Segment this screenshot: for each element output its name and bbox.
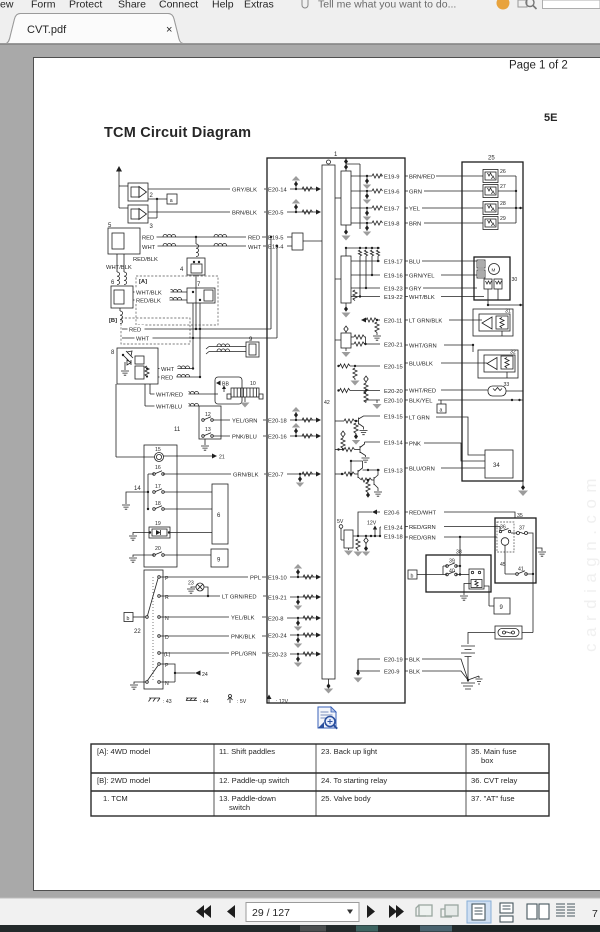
svg-text:24: 24 [202,672,208,678]
wire RED (2WD) [122,237,271,333]
svg-text:27: 27 [500,184,506,190]
node a [148,194,177,218]
wire RED/GRN (E19-24) [405,525,500,531]
switch 40 [443,566,457,576]
paddle switch box 11 [174,406,221,450]
wire GRY/BLK to E20-14 [148,185,266,194]
selector switch 22 [134,570,171,689]
svg-text:12. Paddle-up switch: 12. Paddle-up switch [219,776,290,785]
wire BRN [405,222,483,228]
svg-text:E19-17: E19-17 [384,260,403,266]
wire BLU/BLK [405,362,487,368]
svg-text:E20-15: E20-15 [384,365,403,371]
junction box 38 [426,550,491,593]
wire RED from 8 [158,373,201,381]
svg-text:BRN/RED: BRN/RED [409,175,435,181]
svg-text:E19-16: E19-16 [384,274,403,280]
speed sensor 2 [128,183,154,201]
svg-text:BRN/BLK: BRN/BLK [232,210,257,216]
pin E19-10 network [268,564,321,582]
svg-text:Page 1 of 2: Page 1 of 2 [509,60,568,72]
pressure switch amp 31 [473,309,513,337]
svg-text:RED/GRN: RED/GRN [409,525,436,531]
svg-text:E19-24: E19-24 [384,526,403,532]
svg-text:BLK: BLK [409,658,420,664]
wire PNK [405,442,485,461]
illumination bulb 15 [116,384,225,462]
svg-text:BLU/BLK: BLU/BLK [409,362,433,368]
pin E20-16 network [268,423,321,441]
svg-text:11. Shift paddles: 11. Shift paddles [219,747,275,756]
12V feed and junction row E19-18 [353,521,403,541]
fusible link capsule [468,626,533,644]
pin E20-5 network [268,199,321,217]
svg-text:BLU/ORN: BLU/ORN [409,467,435,473]
pin E20-18 network [268,407,321,425]
pin E20-24 network [268,633,321,649]
E19-24 wire [380,526,403,536]
wire WHT/BLK [405,295,484,301]
svg-text:24. To starting relay: 24. To starting relay [321,776,387,785]
svg-text:23: 23 [188,581,194,587]
svg-text:19: 19 [155,521,161,527]
svg-text:WHT/RED: WHT/RED [156,392,183,398]
sensor input block (second) [335,247,380,303]
node b (right) [408,570,460,579]
svg-text:E20-14: E20-14 [268,188,287,194]
svg-text:Help: Help [212,0,234,11]
svg-text:20: 20 [155,546,161,552]
wire BLK E20-19 [405,658,468,680]
wire GRN [405,190,483,196]
svg-text:[B]: 2WD model: [B]: 2WD model [97,776,150,785]
selector lower ground [130,682,146,689]
RED/GRN feed into 38 [459,537,469,576]
svg-text:E19-10: E19-10 [268,576,287,582]
ground under strip 42 [324,679,333,694]
svg-text:28: 28 [500,201,506,207]
wire E19-17 internal [351,260,403,266]
svg-text:E20-10: E20-10 [384,399,403,405]
svg-text:GRN: GRN [409,190,422,196]
svg-text:PPL/GRN: PPL/GRN [231,651,256,657]
wire PNK/BLU to E20-16 [213,432,266,440]
svg-text:WHT/BLK: WHT/BLK [106,265,132,271]
svg-text:cardiagn.com: cardiagn.com [581,472,600,652]
svg-text:37. "AT" fuse: 37. "AT" fuse [471,794,515,803]
svg-text:E20-11: E20-11 [384,319,402,325]
wires from sensor 5 down to 6 [117,254,127,285]
E19-13 output transistor pair [335,460,403,498]
svg-text:GRN/BLK: GRN/BLK [233,472,259,478]
svg-text:7: 7 [592,908,598,920]
bottom edge strip [0,925,600,932]
wire GRY [405,287,477,293]
svg-text:E20-18: E20-18 [268,419,287,425]
wire GRN/BLK to E20-7 [163,470,266,478]
svg-text:42: 42 [324,400,330,406]
pin E20-14 network [268,176,321,194]
svg-text:36. CVT relay: 36. CVT relay [471,776,517,785]
speed sensor 3 [128,205,154,230]
svg-text:WHT/BLK: WHT/BLK [136,290,162,296]
svg-text:WHT/BLK: WHT/BLK [409,295,435,301]
wire LT GRN/RED to E19-21 [161,592,267,600]
wire GRN/YEL [405,274,477,280]
pin E20-8 network [268,616,321,632]
svg-text:RED/WHT: RED/WHT [409,511,437,517]
svg-text:a: a [440,407,443,413]
svg-text:29: 29 [500,216,506,222]
wire BRN/RED [405,175,483,181]
svg-text:13: 13 [205,427,211,433]
wire E19-16 internal [351,274,403,280]
connector 4 [180,258,205,329]
svg-text:RED: RED [142,235,154,241]
svg-text:Connect: Connect [159,0,198,11]
switch 16 [147,465,165,509]
svg-text:26: 26 [500,169,506,175]
shield drain to connector 4 [196,237,199,257]
svg-text:E19-13: E19-13 [384,469,403,475]
svg-text:25. Valve body: 25. Valve body [321,794,371,803]
ground under sensor supply block [342,225,351,241]
pin E19-5 / E19-4 filter box [268,233,322,251]
wire YEL/GRN to E20-18 [213,416,266,424]
wire RED to E19-5 (twisted pair) [140,233,272,241]
svg-text:b: b [127,616,130,622]
svg-text:1. TCM: 1. TCM [103,794,128,803]
svg-text:YEL/BLK: YEL/BLK [231,615,255,621]
svg-text:PNK/BLU: PNK/BLU [232,434,257,440]
svg-text:WHT: WHT [161,367,175,373]
svg-text:CVT.pdf: CVT.pdf [27,24,67,36]
pressure switch amp 32 [478,350,518,379]
solenoid return bus [515,176,523,223]
wire BLU [405,260,477,266]
svg-text:Protect: Protect [69,0,102,11]
svg-text:14: 14 [134,486,141,492]
svg-text:BLU: BLU [409,260,420,266]
connector 7 [187,282,215,377]
svg-text:PNK: PNK [409,442,421,448]
svg-text:30: 30 [512,277,518,283]
wire RED/WHT [405,511,515,518]
svg-text:E20-19: E20-19 [384,658,403,664]
switch 20 [129,546,211,562]
ground wire 14 left [122,492,148,509]
battery junction comb 10 [227,381,263,408]
svg-text:RED: RED [161,375,173,381]
svg-text:E19-9: E19-9 [384,175,399,181]
E20-10 wire to ground [373,399,403,409]
wire PPL to E19-10 [161,573,267,581]
ground under regulator [342,348,351,357]
wire BLU/ORN [405,467,485,473]
svg-text:PPL: PPL [250,575,262,581]
svg-text:LT GRN/RED: LT GRN/RED [222,594,257,600]
svg-text:E19-22: E19-22 [384,295,403,301]
svg-text:[B]: [B] [109,318,117,324]
wire E19-7 internal [351,206,399,221]
svg-text:WHT: WHT [248,245,262,251]
svg-text:YEL/GRN: YEL/GRN [232,418,257,424]
solenoid 29 [483,216,516,230]
svg-text:BLK: BLK [409,670,420,676]
wire E19-9 internal [351,174,399,189]
svg-text:E20-9: E20-9 [384,670,399,676]
node b (selector common) [124,613,146,622]
svg-text:15: 15 [155,447,161,453]
svg-text:5E: 5E [544,112,557,124]
svg-text:12V: 12V [367,521,377,527]
svg-text:Share: Share [118,0,146,11]
svg-text:18: 18 [155,501,161,507]
svg-text:LT GRN: LT GRN [409,416,430,422]
svg-text:BRN: BRN [409,222,421,228]
svg-text:RED/BLK: RED/BLK [136,298,161,304]
switch 39 [443,559,461,568]
svg-text:37: 37 [519,526,525,532]
svg-text:E20-21: E20-21 [384,343,403,349]
svg-text:Extras: Extras [244,0,274,11]
wire WHT/RED to oil temp sensor [405,389,488,395]
svg-text:BLK/YEL: BLK/YEL [409,399,433,405]
svg-text:34: 34 [493,463,500,469]
svg-text:: 5V: : 5V [237,699,247,705]
ground (top left) [116,166,128,208]
svg-text:PNK/BLK: PNK/BLK [231,634,256,640]
wire WHT to E19-4 (twisted pair) [140,242,278,251]
wire RED/BLK 6-7 [133,296,187,304]
wire PPL/GRN to E20-23 [161,649,267,657]
svg-text:×: × [166,24,172,36]
wire WHT/BLU to 11 [145,384,199,410]
svg-text:10: 10 [250,381,256,387]
prev/next view icons (grayed) [416,905,458,917]
svg-text:: 43: : 43 [163,699,172,705]
svg-text:RED/GRN: RED/GRN [409,536,436,542]
wire PNK/BLK to E20-24 [161,632,267,640]
ground at main fuse box [536,548,546,556]
wire E19-23 internal [351,287,403,293]
grounds under junction row [354,538,371,557]
svg-text:38: 38 [456,550,462,556]
connector 6 (right of 14) [212,484,228,544]
svg-text:Tell me what you want to do...: Tell me what you want to do... [318,0,456,11]
regulator block E20-21 [335,326,403,349]
svg-text:[A]: [A] [139,279,147,285]
body ground cluster [461,676,483,689]
svg-text:29 / 127: 29 / 127 [252,907,290,919]
svg-text:WHT: WHT [142,245,156,251]
battery [461,646,475,680]
pin E20-7 network [268,472,321,488]
E20-20 network [337,388,402,402]
solenoid 27 [483,184,517,198]
svg-text:21: 21 [219,455,225,461]
E20-15 network [337,364,402,386]
valve body box 25 [462,156,523,482]
svg-text:E19-21: E19-21 [268,596,287,602]
svg-text:[A]: 4WD model: [A]: 4WD model [97,747,150,756]
svg-text:E20-23: E20-23 [268,653,287,659]
range position switch 34 [485,450,513,478]
svg-text:E19-14: E19-14 [384,441,403,447]
svg-text:WHT/BLU: WHT/BLU [156,404,182,410]
svg-text:RED: RED [248,235,260,241]
svg-text:LT GRN/BLK: LT GRN/BLK [409,319,442,325]
wire BLK/YEL [405,399,523,405]
+BB feed bracket [215,377,242,404]
svg-text:E20-20: E20-20 [384,389,403,395]
solenoid 28 [483,201,516,215]
svg-text:b: b [411,573,414,579]
svg-text:WHT/RED: WHT/RED [409,389,436,395]
coil below 6 [120,308,123,324]
svg-text:: 12V: : 12V [276,699,289,705]
svg-text:Form: Form [31,0,56,11]
oil temp sensor 33 [488,382,523,396]
svg-text:M: M [492,268,496,273]
svg-text:E19-7: E19-7 [384,207,399,213]
main fuse box 35 [495,513,536,583]
diode unit 19 [129,521,212,540]
wire LT GRN/BLK [405,319,482,325]
svg-text:YEL: YEL [409,207,421,213]
backup lamp 23 [187,581,209,598]
svg-text:35: 35 [517,513,523,519]
svg-text:E20-7: E20-7 [268,473,283,479]
svg-text:: 44: : 44 [200,699,209,705]
svg-text:E19-6: E19-6 [384,190,399,196]
E19-14 output transistor [335,431,403,462]
wire E19-8 internal [351,221,399,236]
wire RED/GRN (E19-18) [405,536,497,542]
svg-text:E20-8: E20-8 [268,617,283,623]
TCM U1 (item 1) outer box [267,152,405,703]
wire YEL/BLK to E20-8 [161,613,267,621]
svg-text:16: 16 [155,465,161,471]
wire E19-6 internal [351,189,399,204]
svg-text:E20-24: E20-24 [268,634,287,640]
svg-text:WHT/GRN: WHT/GRN [409,344,437,350]
svg-text:13. Paddle-down: 13. Paddle-down [219,794,276,803]
connector 9 [246,337,259,357]
svg-text:17: 17 [155,484,161,490]
svg-text:GRN/YEL: GRN/YEL [409,274,435,280]
legend symbols row [149,695,289,706]
wire WHT (2WD) [122,246,277,343]
svg-text:22: 22 [134,629,141,635]
starter cut relay (in 38) [460,569,494,606]
12V pull-up to E20-20 [364,376,368,394]
ground under second block [342,303,351,318]
svg-text:TCM Circuit Diagram: TCM Circuit Diagram [104,125,251,141]
wire WHT from 8 [158,338,194,373]
shift assembly box 14 [134,445,177,567]
svg-text:RED: RED [129,327,141,333]
switch 41 [505,557,534,575]
svg-text:11: 11 [174,427,181,433]
wire WHT/RED to +BB [150,384,218,398]
node a (right) [437,400,446,413]
page layout icons [467,901,491,923]
svg-text:switch: switch [229,803,250,812]
pin E20-23 network [268,652,321,668]
CVT relay 36 [497,522,514,557]
svg-text:33: 33 [504,382,510,388]
5V regulator block [337,519,353,556]
control unit 8 [111,348,158,384]
wire LT GRN [405,416,485,455]
svg-text:35. Main fuse: 35. Main fuse [471,747,517,756]
wire WHT/BLK 6-7 [133,288,187,296]
wire BLK E20-9 [405,670,468,680]
svg-text:GRY: GRY [409,287,422,293]
connector 9 (right) [494,598,510,614]
svg-text:RED/BLK: RED/BLK [133,257,158,263]
sensor supply block (top) [335,159,360,230]
dashed box [A] [136,276,218,325]
input speed sensor 5 [108,223,140,254]
svg-text:E19-8: E19-8 [384,222,399,228]
svg-text:E20-5: E20-5 [268,211,283,217]
switch 17 [153,484,212,493]
svg-text:E19-23: E19-23 [384,287,403,293]
svg-text:E19-15: E19-15 [384,415,403,421]
svg-text:5V: 5V [337,519,344,525]
connector 9 (right of 14) [211,549,228,567]
solenoid 26 [483,169,516,183]
svg-text:E20-6: E20-6 [384,511,399,517]
svg-text:WHT: WHT [136,337,150,343]
wire WHT/GRN [405,344,474,352]
TCM internal connector strip (item 42) [322,160,335,679]
wire E19-22 internal [351,290,403,301]
E20-11 pull-down network [361,318,402,341]
cable to connector 9 [206,344,246,354]
dashed box [B] [109,318,190,344]
valve body ground [518,481,528,496]
svg-text:box: box [481,756,493,765]
svg-text:E19-18: E19-18 [384,535,403,541]
svg-text:a: a [170,198,173,204]
svg-text:ew: ew [0,0,14,11]
svg-text:23. Back up light: 23. Back up light [321,747,378,756]
svg-text:GRY/BLK: GRY/BLK [232,187,257,193]
wire BRN/BLK to E20-5 [148,208,266,217]
wire YEL [405,207,483,213]
svg-text:BB: BB [222,382,229,388]
stepper motor unit 30 [474,257,523,306]
attachment zoom icon [318,707,337,729]
svg-text:25: 25 [488,156,495,162]
starter interlock bracket to 24 [161,664,208,682]
AT fuse 37 [511,526,533,633]
E19-15 output transistor [335,415,403,445]
switch 18 [147,501,212,510]
svg-text:E20-16: E20-16 [268,435,287,441]
connector 6 [111,280,133,308]
E20-19 / E20-9 ground wires [354,658,403,683]
pin E19-21 network [268,595,321,611]
E20-6 wire with arrow [358,510,399,537]
